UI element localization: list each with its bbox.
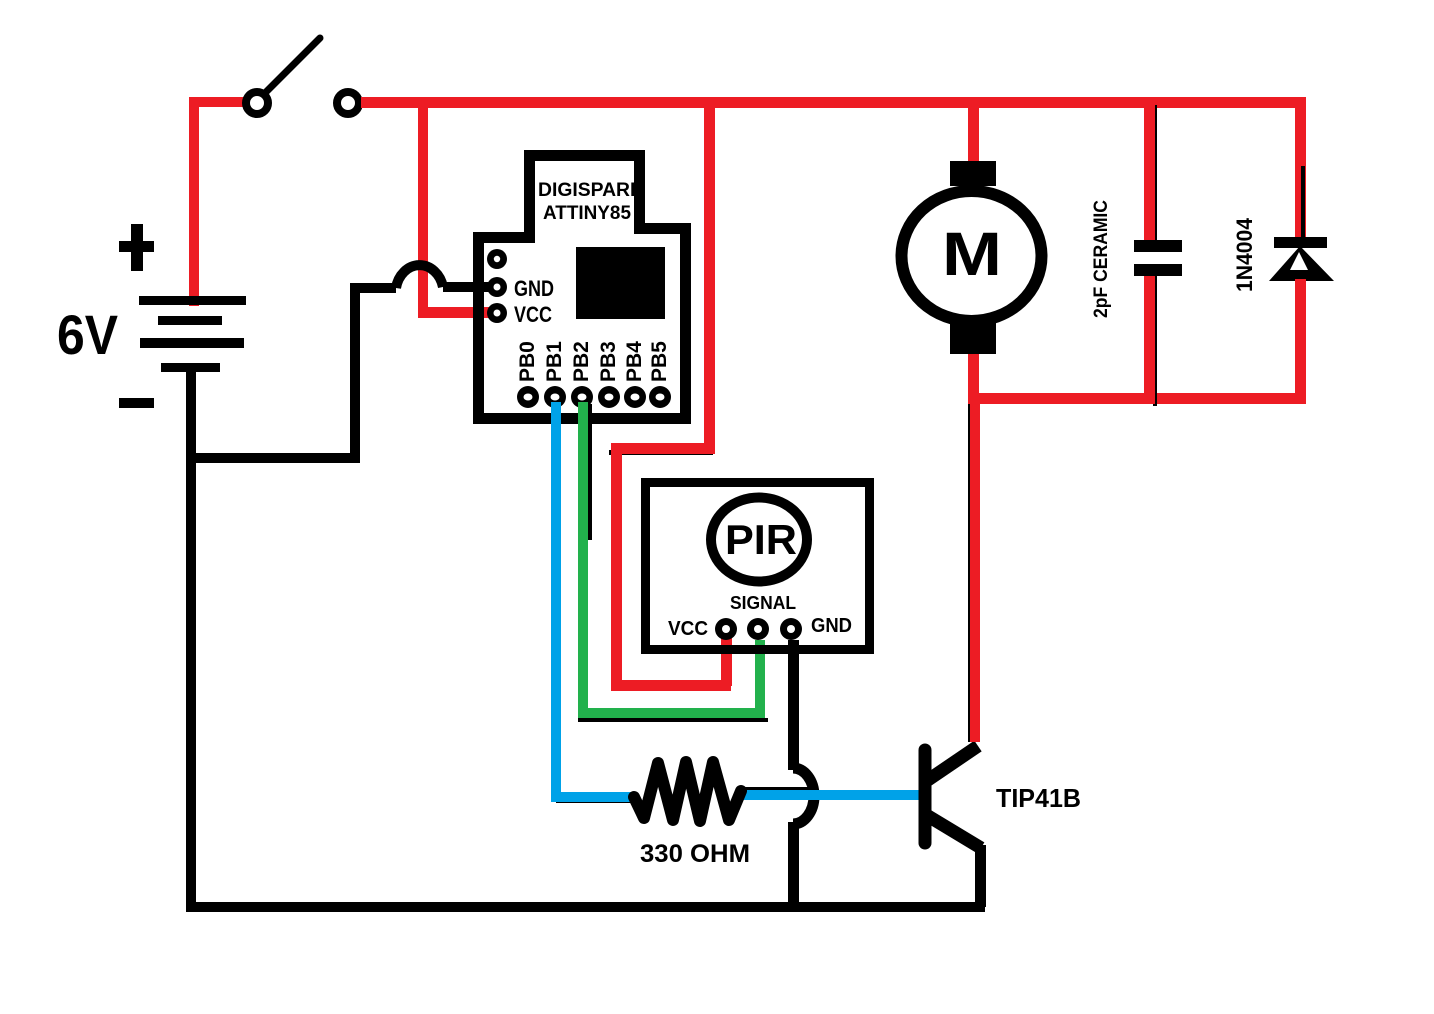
capacitor C1 plates (1134, 240, 1182, 276)
capacitor C1 lead top (1144, 102, 1157, 241)
PIR pin SIGNAL (747, 618, 769, 640)
wire black pir gnd down with hump (788, 640, 814, 907)
resistor R1 330 OHM (634, 762, 741, 821)
wire black thin beside green (588, 404, 592, 540)
digispark chip body (576, 247, 665, 319)
PIR pin GND (780, 618, 802, 640)
wire green horizontal (578, 708, 765, 718)
PIR pin VCC (715, 618, 737, 640)
battery minus sign (119, 398, 154, 408)
svg-text:330 OHM: 330 OHM (640, 840, 750, 868)
svg-text:1N4004: 1N4004 (1232, 217, 1257, 292)
PIR circle (711, 498, 807, 582)
wire red motor stub top (968, 102, 979, 164)
svg-text:ATTINY85: ATTINY85 (543, 203, 631, 224)
wire red pir left vertical (611, 443, 622, 691)
motor M1 bottom terminal (950, 323, 996, 354)
wire black gnd riser (350, 283, 360, 463)
wire black collector underlay (968, 402, 971, 742)
wire red pir vcc up (721, 636, 732, 686)
wire black shadow under green horizontal (578, 718, 768, 722)
wire black gnd to digispark with hump (355, 265, 500, 293)
capacitor C1 lead bottom (1144, 276, 1157, 406)
wire red pir horizontal (611, 443, 715, 454)
wire blue resistor to base (740, 790, 920, 800)
diode D1 1N4004 (1269, 237, 1334, 281)
svg-text:VCC: VCC (668, 618, 708, 640)
wire red pir branch vertical (704, 102, 715, 453)
svg-text:PB1: PB1 (543, 341, 566, 382)
svg-text:SIGNAL: SIGNAL (730, 593, 796, 613)
svg-text:PB4: PB4 (623, 341, 646, 382)
wire black shadow under red pir horizontal (609, 450, 713, 455)
wire red lower rail (968, 393, 1306, 404)
wire red diode branch bottom (1295, 279, 1306, 404)
wire red motor stub bottom (968, 350, 979, 400)
wire black gnd horizontal to battery (191, 453, 360, 463)
switch S1 (246, 38, 359, 114)
digispark pin GND (487, 277, 507, 297)
wire black battery minus vertical (186, 368, 196, 912)
wire red vcc branch (418, 102, 500, 318)
wire blue horizontal to resistor (551, 792, 635, 802)
digispark pin P1 (487, 249, 507, 269)
svg-text:DIGISPARK: DIGISPARK (538, 180, 644, 201)
svg-text:GND: GND (514, 276, 554, 301)
wire red pir bottom horizontal (611, 680, 731, 691)
svg-text:VCC: VCC (514, 302, 552, 327)
digispark pin VCC (487, 303, 507, 323)
battery plus sign (119, 224, 154, 271)
PIR box U2 (641, 478, 874, 654)
digispark pins PB0-PB5 (517, 386, 671, 408)
wire red battery plus vertical (189, 97, 247, 306)
svg-text:TIP41B: TIP41B (996, 783, 1081, 813)
svg-text:M: M (942, 221, 1002, 289)
motor M1 body (902, 191, 1042, 321)
wire black shadow under blue left (556, 799, 641, 803)
svg-text:PB3: PB3 (597, 341, 620, 382)
svg-text:2pF CERAMIC: 2pF CERAMIC (1091, 200, 1112, 318)
wire red top rail (361, 97, 1306, 108)
svg-text:PB0: PB0 (516, 341, 539, 382)
wire green signal up (755, 640, 765, 715)
svg-text:6V: 6V (57, 303, 118, 366)
svg-text:PB2: PB2 (570, 341, 593, 382)
wire black ground bottom rail (186, 902, 985, 912)
digispark U1 outline (473, 150, 691, 424)
wire red collector vertical (970, 398, 980, 742)
battery BT1 6V (139, 296, 246, 372)
svg-text:GND: GND (811, 615, 852, 637)
wire green PB2 vertical (578, 402, 588, 718)
wire blue PB1 vertical (551, 402, 561, 802)
svg-text:PIR: PIR (725, 516, 797, 563)
wire red diode branch top (1295, 102, 1306, 238)
transistor Q1 TIP41B (925, 746, 981, 848)
svg-text:PB5: PB5 (648, 341, 671, 382)
wire black emitter down (975, 845, 986, 907)
wire black shadow above blue right (742, 787, 810, 791)
motor M1 top terminal (950, 161, 996, 186)
